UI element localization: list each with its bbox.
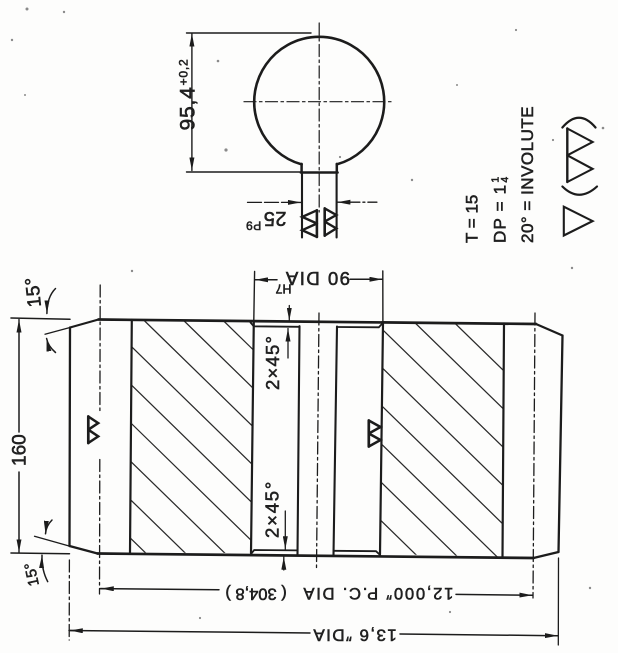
- svg-text:160: 160: [10, 434, 31, 466]
- svg-text:DP = 114: DP = 114: [490, 176, 512, 243]
- svg-text:( 304,8 ): ( 304,8 ): [225, 585, 286, 603]
- svg-text:95,4+0,2: 95,4+0,2: [177, 59, 200, 131]
- svg-text:12,000″ P.C. DIA: 12,000″ P.C. DIA: [302, 584, 454, 602]
- svg-text:15°: 15°: [22, 276, 46, 308]
- svg-text:T = 15: T = 15: [463, 195, 482, 243]
- svg-text:25P9: 25P9: [246, 207, 287, 233]
- svg-text:20° = INVOLUTE: 20° = INVOLUTE: [518, 106, 537, 243]
- svg-text:15°: 15°: [21, 561, 43, 588]
- svg-text:2×45°: 2×45°: [262, 480, 283, 538]
- svg-text:2×45°: 2×45°: [262, 335, 283, 390]
- svg-text:H7: H7: [275, 282, 291, 296]
- svg-text:13,6 ″DIA: 13,6 ″DIA: [312, 626, 397, 645]
- svg-text:90 DIA: 90 DIA: [284, 268, 350, 289]
